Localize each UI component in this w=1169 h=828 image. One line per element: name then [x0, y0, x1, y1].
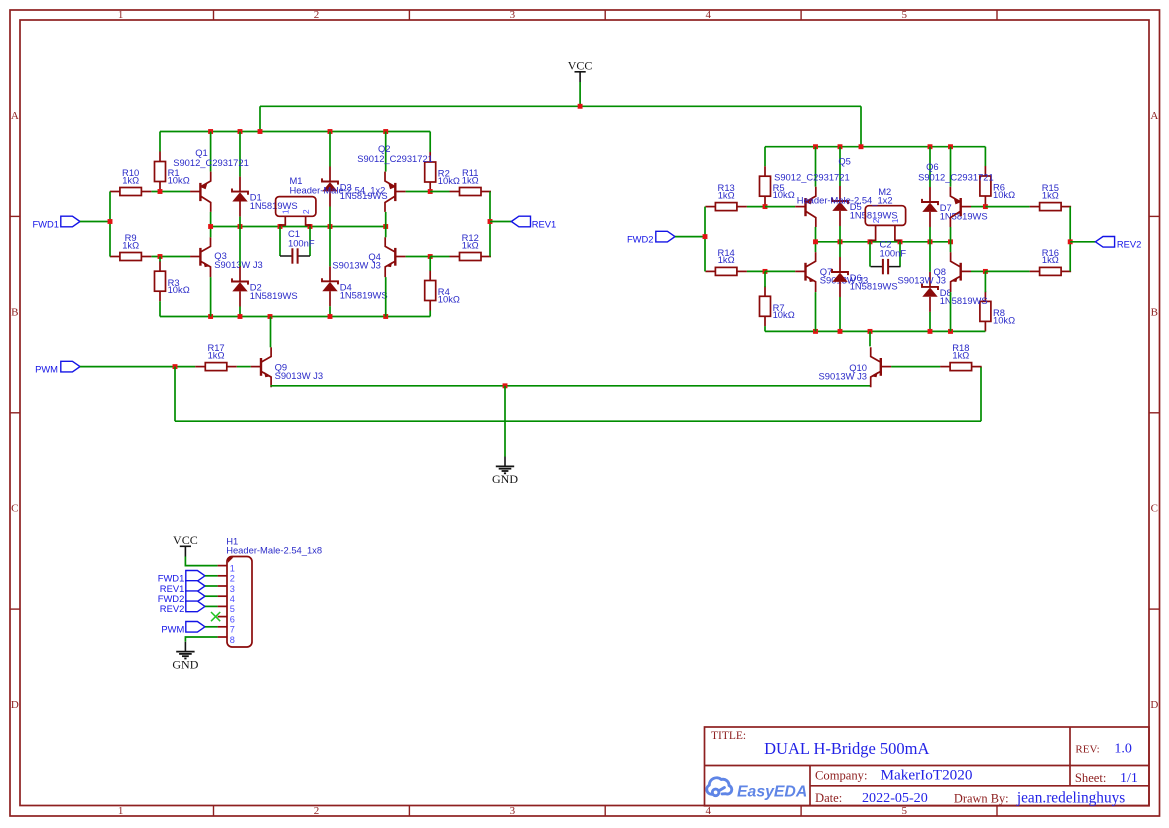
wire PWM to R17 [80, 366, 195, 368]
svg-text:7: 7 [230, 625, 235, 635]
wire Q9 emitter rail [271, 385, 871, 387]
svg-text:1/1: 1/1 [1120, 771, 1138, 786]
diode D5 [839, 186, 841, 201]
wire Q2 collector [385, 212, 387, 227]
svg-text:2: 2 [301, 209, 311, 214]
resistor R14 [705, 270, 715, 272]
svg-text:1kΩ: 1kΩ [1042, 254, 1059, 265]
node R7 top junction [763, 269, 768, 274]
resistor R5 [764, 166, 766, 176]
svg-text:1: 1 [281, 209, 291, 214]
wire R8 top lead [984, 271, 986, 292]
wire R11 left [430, 191, 449, 193]
resistor R11 [450, 191, 460, 193]
svg-text:PWM: PWM [35, 363, 58, 374]
svg-text:1kΩ: 1kΩ [718, 254, 735, 265]
svg-text:jean.redelinghuys: jean.redelinghuys [1016, 789, 1125, 806]
svg-text:6: 6 [230, 614, 235, 624]
wire REV2 pin5 [205, 605, 218, 607]
wire Q5 emitter [815, 147, 817, 187]
wire R4 top [429, 257, 431, 271]
capacitor C2 [871, 266, 883, 268]
wire REV1 stub [490, 221, 511, 223]
wire R12 left [430, 256, 449, 258]
node R4 top junction [428, 254, 433, 259]
diode D1 [239, 177, 241, 192]
ground GND main [504, 457, 506, 467]
svg-text:2: 2 [230, 574, 235, 584]
wire left bottom rail [160, 316, 430, 318]
svg-text:4: 4 [230, 594, 235, 604]
svg-text:2: 2 [871, 218, 881, 223]
wire R2 top [429, 132, 431, 153]
svg-text:REV2: REV2 [160, 603, 185, 614]
node PWM junction [173, 364, 178, 369]
wire D7 cathode [929, 147, 931, 187]
port FWD1 [61, 216, 80, 227]
svg-text:2022-05-20: 2022-05-20 [862, 790, 928, 806]
svg-text:10kΩ: 10kΩ [168, 174, 190, 185]
wire PWM long rail [175, 420, 981, 422]
node R2 bottom junction [428, 189, 433, 194]
node R1 bottom junction [158, 189, 163, 194]
resistor R13 [705, 206, 715, 208]
node right top rail junctions [813, 144, 818, 149]
transistor Q1 [190, 191, 200, 193]
svg-text:4: 4 [706, 9, 712, 21]
svg-text:PWM: PWM [161, 624, 184, 635]
svg-text:EasyEDA: EasyEDA [737, 784, 807, 801]
wire Q6 collector [950, 227, 952, 242]
wire Q3 collector [210, 227, 212, 238]
wire Q3 emitter [210, 277, 212, 316]
wire VCC rail [260, 105, 861, 107]
svg-text:1: 1 [118, 9, 124, 21]
wire R9 to Q3 base [152, 256, 191, 258]
resistor R2 [429, 152, 431, 162]
wire Q2 base [406, 191, 431, 193]
svg-text:1: 1 [118, 805, 124, 817]
svg-text:1: 1 [230, 563, 235, 573]
svg-text:S9013W J3: S9013W J3 [819, 370, 867, 381]
wire R14 right [747, 270, 765, 272]
svg-text:S9013W J3: S9013W J3 [214, 259, 262, 270]
wire D5 cathode [839, 147, 841, 186]
svg-text:Header-Male-2.54_1x2: Header-Male-2.54_1x2 [797, 194, 893, 205]
svg-text:1: 1 [890, 218, 900, 223]
node left bottom rail junctions [208, 314, 213, 319]
wire D4 cathode [329, 227, 331, 267]
svg-text:C: C [11, 503, 18, 515]
wire GND drop [504, 386, 506, 457]
resistor R16 [1030, 270, 1040, 272]
port REV2 [1095, 237, 1114, 248]
title block frame [705, 727, 1150, 806]
transistor Q3 [190, 256, 200, 258]
svg-text:1kΩ: 1kΩ [462, 239, 479, 250]
svg-text:A: A [1150, 110, 1158, 122]
svg-text:Q5: Q5 [838, 156, 851, 167]
svg-text:2: 2 [314, 805, 320, 817]
wire FWD1 pin2 [205, 575, 218, 577]
wire R18 drop [980, 367, 982, 422]
svg-text:3: 3 [510, 9, 516, 21]
svg-text:S9012_C2931721: S9012_C2931721 [918, 171, 994, 182]
wire Q4 emitter [385, 277, 387, 316]
svg-text:1kΩ: 1kΩ [1042, 189, 1059, 200]
wire R5 top [764, 147, 766, 167]
svg-text:5: 5 [901, 805, 907, 817]
wire Q7 collector [815, 242, 817, 252]
diode D3 [329, 167, 331, 182]
wire Q8 emitter [950, 292, 952, 331]
node REV1 junction [488, 219, 493, 224]
node left top rail junctions [208, 129, 213, 134]
wire right bottom rail [765, 330, 985, 332]
wire Q8 base [971, 270, 985, 272]
wire D2 cathode [239, 227, 241, 267]
svg-text:10kΩ: 10kΩ [773, 189, 795, 200]
wire R3 top [159, 257, 161, 262]
svg-text:Company:: Company: [815, 769, 867, 783]
wire left mid rail [211, 226, 386, 228]
svg-text:10kΩ: 10kΩ [438, 175, 460, 186]
svg-text:Header-Male-2.54_1x2: Header-Male-2.54_1x2 [290, 185, 386, 196]
svg-text:VCC: VCC [173, 533, 198, 547]
resistor R15 [1030, 206, 1040, 208]
resistor R3 [159, 261, 161, 271]
svg-text:REV:: REV: [1075, 744, 1099, 756]
svg-text:1N5819WS: 1N5819WS [250, 290, 298, 301]
svg-text:100nF: 100nF [288, 237, 315, 248]
svg-text:GND: GND [172, 657, 198, 671]
node R3 top junction [158, 254, 163, 259]
wire D6 cathode [839, 242, 841, 257]
wire D3 cathode [329, 132, 331, 167]
wire FWD2 column [704, 207, 706, 272]
wire VCC to pin1 [185, 557, 217, 566]
svg-text:1N5819WS: 1N5819WS [250, 200, 298, 211]
svg-text:Q6: Q6 [926, 161, 939, 172]
header M2 [865, 206, 905, 226]
wire Q6 base [971, 206, 985, 208]
svg-text:5: 5 [901, 9, 907, 21]
svg-text:1kΩ: 1kΩ [122, 239, 139, 250]
wire Q4 collector [385, 227, 387, 238]
svg-text:4: 4 [706, 805, 712, 817]
resistor R17 [195, 366, 205, 368]
wire C1 left [279, 227, 281, 257]
wire Q5 collector [815, 227, 817, 242]
node left mid rail junctions [208, 224, 213, 229]
no-connect pin6 [211, 612, 220, 621]
transistor Q7 [795, 270, 805, 272]
port REV1 [511, 216, 530, 227]
transistor Q4 [395, 256, 405, 258]
diode D4 [329, 266, 331, 281]
transistor Q6 [961, 206, 971, 208]
wire R10 to Q1 base [152, 191, 191, 193]
resistor R6 [984, 166, 986, 176]
svg-text:1N5819WS: 1N5819WS [340, 290, 388, 301]
svg-text:10kΩ: 10kΩ [773, 309, 795, 320]
port FWD2 [656, 231, 675, 242]
svg-text:10kΩ: 10kΩ [438, 293, 460, 304]
resistor R8 [984, 291, 986, 301]
wire C2 right [899, 242, 901, 267]
port FWD2 header [186, 591, 205, 602]
svg-text:1kΩ: 1kΩ [462, 174, 479, 185]
wire R15 left [985, 206, 1029, 208]
wire D6 anode [839, 297, 841, 331]
wire PWM drop [174, 367, 176, 422]
wire REV1 column [489, 192, 491, 257]
svg-text:1kΩ: 1kΩ [208, 349, 225, 360]
svg-text:D: D [11, 699, 19, 711]
node right bottom rail junctions [813, 329, 818, 334]
header M1 [276, 197, 316, 217]
svg-text:100nF: 100nF [880, 247, 907, 258]
svg-text:1N5819WS: 1N5819WS [940, 295, 988, 306]
port PWM header [186, 622, 205, 633]
wire Q1 emitter [210, 132, 212, 172]
node REV2 junction [1068, 239, 1073, 244]
svg-text:S9013W J3: S9013W J3 [898, 275, 946, 286]
wire left top rail [160, 131, 430, 133]
resistor R10 [110, 191, 120, 193]
svg-text:10kΩ: 10kΩ [993, 314, 1015, 325]
wire REV1 pin3 [205, 585, 218, 587]
capacitor C1 [280, 255, 292, 257]
node R5 bottom junction [763, 204, 768, 209]
wire Q9 collector [270, 317, 272, 348]
wire REV2 stub [1070, 241, 1095, 243]
diode D2 [239, 267, 241, 282]
wire D8 anode [929, 312, 931, 332]
transistor Q8 [961, 270, 971, 272]
svg-text:3: 3 [230, 584, 235, 594]
node GND rail junction [503, 383, 508, 388]
wire R7 top lead [764, 271, 766, 287]
svg-text:1N5819WS: 1N5819WS [940, 210, 988, 221]
svg-text:1kΩ: 1kΩ [952, 349, 969, 360]
wire Q6 emitter [950, 147, 952, 187]
svg-text:1kΩ: 1kΩ [122, 174, 139, 185]
diode D8 [929, 272, 931, 287]
wire Q1 collector [210, 212, 212, 227]
svg-text:B: B [1151, 306, 1158, 318]
wire R17 to Q9 base [237, 366, 251, 368]
port FWD1 header [186, 571, 205, 582]
svg-text:D: D [1150, 699, 1158, 711]
wire right top rail [765, 146, 985, 148]
svg-text:A: A [11, 110, 19, 122]
node VCC rail junction [578, 104, 583, 109]
port PWM [61, 361, 80, 372]
resistor R4 [429, 271, 431, 281]
wire PWM pin7 [205, 626, 218, 628]
transistor Q10 [881, 366, 891, 368]
wire D1 anode [239, 217, 241, 227]
svg-text:DUAL H-Bridge 500mA: DUAL H-Bridge 500mA [764, 739, 929, 758]
wire D3 anode [329, 207, 331, 227]
svg-text:S9012_C2931721: S9012_C2931721 [774, 171, 850, 182]
svg-text:1kΩ: 1kΩ [718, 189, 735, 200]
svg-text:B: B [11, 306, 18, 318]
wire D4 anode [329, 306, 331, 316]
wire R3 bottom [159, 301, 161, 316]
svg-text:S9012_C2931721: S9012_C2931721 [357, 153, 433, 164]
wire FWD2 pin4 [205, 595, 218, 597]
svg-text:5: 5 [230, 604, 235, 614]
svg-text:3: 3 [510, 805, 516, 817]
node FWD2 junction [703, 234, 708, 239]
svg-text:1N5819WS: 1N5819WS [850, 280, 898, 291]
svg-text:C: C [1151, 503, 1158, 515]
wire VCC stub [579, 82, 581, 106]
wire R6 top [984, 147, 986, 166]
svg-text:S9013W J3: S9013W J3 [332, 260, 380, 271]
svg-text:10kΩ: 10kΩ [993, 189, 1015, 200]
resistor R9 [110, 256, 120, 258]
svg-text:10kΩ: 10kΩ [168, 284, 190, 295]
wire R5 to Q5 base [765, 206, 795, 208]
svg-text:8: 8 [230, 635, 235, 645]
wire R7 bottom [764, 326, 766, 331]
wire FWD1 to column [80, 221, 110, 223]
wire FWD1 column [109, 192, 111, 257]
resistor R1 [159, 152, 161, 162]
wire D2 anode [239, 307, 241, 317]
svg-text:Date:: Date: [815, 791, 842, 805]
node FWD1 junction [108, 219, 113, 224]
node R6 bottom junction [983, 204, 988, 209]
node right mid rail junctions [813, 239, 818, 244]
node R8 top junction [983, 269, 988, 274]
wire D1 cathode [239, 132, 241, 177]
diode D6 [839, 257, 841, 272]
wire Q7 emitter [815, 292, 817, 331]
transistor Q5 [795, 206, 805, 208]
svg-text:VCC: VCC [568, 59, 593, 73]
svg-text:FWD2: FWD2 [627, 233, 654, 244]
wire R16 left [985, 270, 1029, 272]
transistor Q9 [251, 366, 261, 368]
resistor R12 [450, 256, 460, 258]
wire REV2 column [1069, 207, 1071, 272]
svg-text:FWD1: FWD1 [32, 218, 59, 229]
header H1 [227, 557, 252, 648]
wire D7 anode [929, 227, 931, 242]
port REV2 header [186, 601, 205, 612]
svg-text:Drawn By:: Drawn By: [954, 791, 1009, 805]
wire Q8 collector [950, 242, 952, 252]
svg-text:TITLE:: TITLE: [711, 730, 746, 742]
resistor R18 [940, 366, 950, 368]
svg-text:GND: GND [492, 472, 518, 486]
wire C2 left [869, 242, 871, 267]
wire R4 bottom [429, 311, 431, 317]
wire D5 anode [839, 226, 841, 242]
wire R18 to Q10 base [891, 366, 940, 368]
svg-text:1.0: 1.0 [1114, 742, 1132, 757]
svg-text:MakerIoT2020: MakerIoT2020 [881, 767, 973, 784]
wire GND pin8 [185, 637, 217, 642]
transistor Q2 [395, 191, 405, 193]
wire R13 right [747, 206, 765, 208]
wire Q2 emitter [385, 132, 387, 172]
wire Q4 base [406, 256, 431, 258]
wire VCC drop left [259, 106, 261, 131]
wire FWD2 stub [675, 236, 705, 238]
svg-text:S9012_C2931721: S9012_C2931721 [173, 157, 249, 168]
wire Q10 collector [869, 331, 871, 346]
svg-text:Sheet:: Sheet: [1075, 771, 1106, 785]
wire D8 cathode [929, 242, 931, 272]
svg-text:2: 2 [314, 9, 320, 21]
diode D7 [929, 187, 931, 202]
svg-text:S9013W J3: S9013W J3 [275, 370, 323, 381]
svg-text:REV1: REV1 [532, 218, 557, 229]
wire R7 to Q7 base [765, 270, 795, 272]
wire R1 top [159, 132, 161, 152]
wire VCC drop right [860, 106, 862, 146]
wire C1 right [309, 227, 311, 257]
svg-text:REV2: REV2 [1117, 239, 1142, 250]
ground GND header [184, 642, 186, 652]
svg-text:Header-Male-2.54_1x8: Header-Male-2.54_1x8 [226, 545, 322, 556]
port REV1 header [186, 581, 205, 592]
logo EasyEDA [707, 778, 732, 796]
resistor R7 [764, 286, 766, 296]
wire right mid rail [816, 241, 951, 243]
